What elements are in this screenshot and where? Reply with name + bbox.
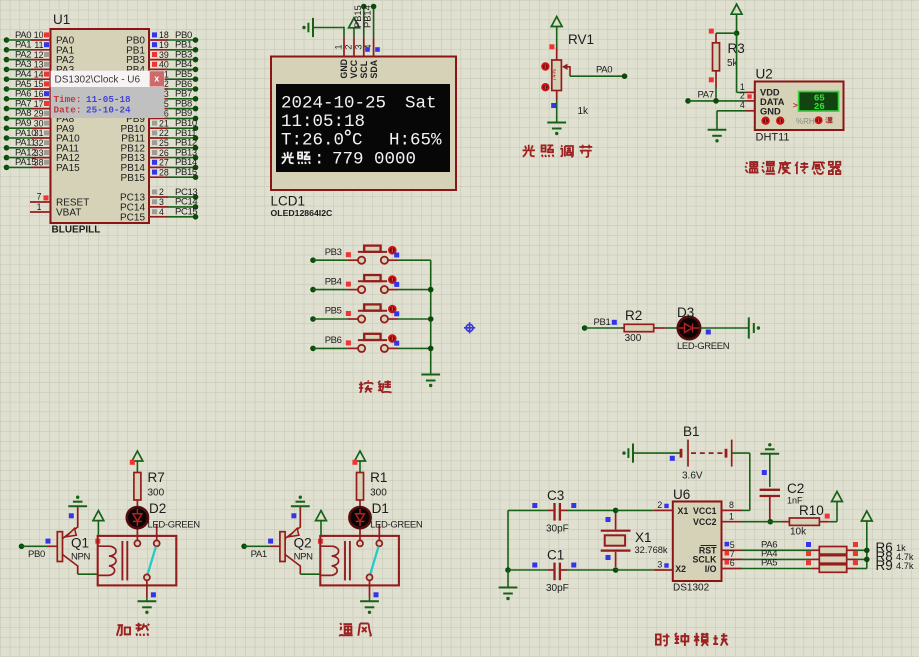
U1 pin 21 PB10 wire: [149, 127, 169, 129]
IC U6 DS1302 body: [673, 502, 722, 582]
wire gnd to pin1: [313, 27, 344, 29]
svg-text:GND: GND: [760, 106, 781, 116]
U1 pin 11 PA1 wire: [4, 47, 10, 53]
LCD1 pin 3 SCL: [363, 38, 365, 57]
svg-text:PB6: PB6: [325, 335, 342, 346]
svg-text:1: 1: [729, 511, 734, 521]
LCD1 pin 2 VCC: [353, 38, 355, 57]
wire PA1 to Q2 base: [244, 545, 270, 547]
LCD1 pin 4 SDA: [373, 38, 375, 57]
U1 pin 45 PB8 wire: [149, 108, 169, 110]
node VCC2/R10: [768, 519, 774, 525]
relay bottom pin to ground: [369, 580, 371, 597]
U2 pin stubs: [746, 91, 755, 93]
U1 pin 42 PB6 wire: [149, 88, 169, 90]
button PB3 actuator: [388, 246, 397, 255]
ground above C2: [768, 443, 771, 446]
popup close button: [150, 71, 164, 86]
wire common button net: [430, 260, 432, 374]
button PB5 actuator: [388, 305, 397, 314]
svg-text:PA7: PA7: [698, 89, 714, 100]
U6 pin 8: [722, 509, 743, 511]
LCD1 text line4 guang zhao: [282, 152, 294, 164]
svg-text:11:05:18: 11:05:18: [281, 112, 365, 132]
svg-text:D3: D3: [677, 305, 694, 320]
svg-text:39: 39: [159, 50, 169, 60]
terminal PB1: [582, 325, 588, 331]
svg-text:R10: R10: [799, 503, 824, 518]
annotation an jian: [359, 380, 373, 392]
power arrow above RV1: [551, 17, 562, 27]
svg-text:Q2: Q2: [294, 536, 312, 551]
relay core bars: [344, 541, 346, 580]
U6 pin 3: [654, 569, 673, 571]
svg-text:PB15: PB15: [175, 167, 197, 178]
svg-text:14: 14: [34, 69, 44, 79]
svg-text:8: 8: [729, 500, 734, 510]
terminal PB4: [310, 287, 316, 293]
node X1 bottom: [613, 567, 619, 573]
svg-text:C3: C3: [547, 488, 564, 503]
svg-text:PA1: PA1: [251, 549, 267, 560]
U1 pin 46 PB9 wire: [149, 117, 169, 119]
svg-text:LED-GREEN: LED-GREEN: [148, 520, 201, 531]
annotation guang zhao tiao jie: [523, 145, 535, 157]
svg-text:30pF: 30pF: [546, 524, 569, 535]
U1 pin 40 PB4 wire: [149, 68, 169, 70]
svg-text:R9: R9: [876, 558, 893, 573]
svg-text:PB1: PB1: [594, 317, 611, 328]
RV1 adjust buttons: [541, 62, 549, 70]
resistor R6: [812, 549, 819, 551]
terminal PB0: [19, 544, 25, 550]
wire PB5 to button: [313, 318, 348, 320]
svg-text:SDA: SDA: [369, 59, 379, 78]
wire ground to B1: [633, 452, 681, 454]
svg-text:U2: U2: [756, 67, 773, 82]
U1 pin 39 PB3 wire: [149, 59, 169, 61]
U1 pin 18 PB0 wire: [149, 39, 169, 41]
U1 pin 22 PB11 wire: [149, 137, 169, 139]
OLED display LCD1 body: [271, 57, 456, 191]
push button PB3: [348, 259, 358, 261]
terminal PB5: [310, 316, 316, 322]
svg-text:R2: R2: [625, 308, 642, 323]
svg-text:VBAT: VBAT: [56, 208, 81, 219]
button PB6 actuator: [388, 334, 397, 343]
wire PB0 to Q1 base: [22, 545, 48, 547]
terminal PA7: [685, 98, 691, 104]
svg-text:2: 2: [740, 90, 745, 100]
LED D2: [127, 507, 148, 528]
svg-text:19: 19: [159, 40, 169, 50]
relay body: [320, 536, 399, 586]
transistor Q1 NPN: [57, 532, 62, 562]
svg-text:NPN: NPN: [294, 552, 313, 563]
power arrow at R10: [832, 492, 843, 502]
ground above Q1: [76, 496, 79, 499]
svg-text:DS1302\Clock - U6: DS1302\Clock - U6: [55, 75, 141, 86]
relay switch arm: [148, 547, 156, 575]
U1 pin 38 PA15 wire: [4, 165, 10, 171]
annotation: [339, 623, 353, 636]
svg-text:3: 3: [657, 560, 662, 570]
svg-text:DS1302: DS1302: [673, 583, 710, 594]
svg-text:2: 2: [657, 500, 662, 510]
svg-text::: :: [314, 150, 325, 170]
capacitor C3: [508, 509, 548, 511]
relay bottom pin to ground: [146, 580, 148, 597]
wire PB1 to R2: [585, 327, 621, 329]
svg-text:PA15: PA15: [56, 163, 80, 174]
LED D3: [678, 317, 700, 339]
wire VCC2 to R10: [742, 521, 782, 523]
svg-text:PB4: PB4: [325, 276, 342, 287]
relay core bars: [121, 541, 123, 580]
svg-text:R1: R1: [370, 470, 387, 485]
wire PB6 to button: [313, 347, 348, 349]
resistor R1: [357, 473, 364, 501]
svg-text:25: 25: [159, 138, 169, 148]
wire RV1 wiper to PA0: [570, 75, 622, 77]
ground at LCD1 pin1: [312, 18, 314, 37]
U1 pin 25 PB12 wire: [149, 147, 169, 149]
resistor R8: [812, 558, 819, 560]
wire VCC down to U2 VDD: [736, 33, 738, 92]
transistor Q2 NPN: [280, 532, 285, 562]
svg-text:VCC2: VCC2: [693, 517, 717, 527]
U6 pin 1: [722, 521, 743, 523]
svg-text:C: C: [352, 130, 363, 150]
node X1 top: [613, 508, 619, 514]
power arrow above R7: [132, 451, 143, 461]
svg-text:X1: X1: [678, 506, 689, 516]
svg-text:18: 18: [159, 30, 169, 40]
ground above Q2: [299, 496, 302, 499]
svg-text:DHT11: DHT11: [756, 132, 790, 144]
svg-text:PB5: PB5: [325, 306, 342, 317]
node R3 top: [734, 30, 740, 36]
svg-text:17: 17: [34, 99, 44, 109]
svg-text:PC15: PC15: [120, 212, 145, 223]
svg-text:H:65%: H:65%: [389, 130, 442, 150]
ground below RV1: [547, 122, 566, 124]
svg-text:SCL: SCL: [359, 60, 369, 78]
relay contact common: [136, 528, 138, 541]
wire to U6 X1 pin: [616, 509, 654, 511]
ground below buttons: [421, 374, 440, 376]
svg-text:2: 2: [344, 44, 354, 49]
U1 pin 16 PA6 wire: [4, 96, 10, 102]
relay contact common: [359, 528, 361, 541]
U6 pin 7 wire PA4: [722, 558, 743, 560]
wire Q1 collector to relay coil: [78, 573, 98, 575]
U2 LCD readout: [799, 92, 839, 112]
U1 pin 17 PA7 wire: [4, 106, 10, 112]
U1 pin 4 PC15 wire: [149, 216, 169, 218]
svg-text:3.6V: 3.6V: [682, 471, 703, 482]
svg-text:4.7k: 4.7k: [896, 561, 914, 571]
U1 pin 28 PB15 wire: [149, 176, 169, 178]
annotation wen shi du chuan gan qi: [745, 162, 758, 173]
svg-text:2: 2: [159, 187, 164, 197]
svg-text:16: 16: [34, 89, 44, 99]
origin marker: [464, 322, 475, 333]
svg-text:PB3: PB3: [325, 247, 342, 258]
svg-text:1: 1: [334, 44, 344, 49]
svg-text:X1: X1: [635, 530, 652, 545]
wire node PB14 to pin4: [373, 7, 375, 39]
U1 pin 30 PA9 wire: [4, 125, 10, 131]
svg-text:26: 26: [814, 101, 825, 112]
svg-text:25-10-24: 25-10-24: [86, 105, 131, 116]
ground below relay: [360, 600, 379, 602]
wire R10 to power: [829, 521, 837, 523]
wire PA7 to U2 DATA: [688, 100, 746, 102]
svg-text:X2: X2: [675, 564, 686, 574]
svg-text:1: 1: [37, 202, 42, 212]
power arrow at relay coil: [93, 511, 104, 521]
svg-text:x: x: [154, 74, 159, 84]
U1 pin 3 PC14 wire: [149, 206, 169, 208]
DHT11 sensor U2 body: [755, 82, 844, 131]
U1 pin 13 PA3 wire: [4, 67, 10, 73]
potentiometer RV1 body: [556, 47, 558, 60]
U1 pin 43 PB7 wire: [149, 98, 169, 100]
U1 pin 2 PC13 wire: [149, 196, 169, 198]
power arrow at relay coil: [316, 511, 327, 521]
svg-text:GND: GND: [339, 59, 349, 79]
U1 pin 1 VBAT: [30, 211, 51, 213]
RV1 bottom pin: [556, 91, 558, 101]
wire button PB6 to common: [398, 347, 431, 349]
svg-text:D2: D2: [149, 501, 166, 516]
resistor R9: [812, 568, 819, 570]
svg-text:26: 26: [159, 148, 169, 158]
U1 pin 7 RESET: [30, 201, 51, 203]
svg-text:LCD1: LCD1: [271, 194, 306, 209]
LCD1 screen: [276, 84, 450, 172]
power arrow above R3/U2: [731, 4, 742, 14]
U1 pin 26 PB13 wire: [149, 157, 169, 159]
svg-text:779 0000: 779 0000: [332, 150, 416, 170]
svg-text:4: 4: [740, 100, 745, 110]
svg-text:I/O: I/O: [705, 564, 717, 574]
terminal PB6: [310, 346, 316, 352]
svg-text:13: 13: [34, 60, 44, 70]
svg-text:>: >: [793, 100, 798, 110]
resistor R7: [134, 473, 141, 501]
ground left of B1: [632, 444, 634, 463]
svg-text:RV1: RV1: [568, 32, 594, 47]
capacitor C2: [760, 489, 780, 491]
LCD1 pin 1 GND: [343, 38, 345, 57]
crystal X1: [615, 513, 617, 530]
svg-text:T:26.0: T:26.0: [281, 130, 344, 150]
svg-text:LED-GREEN: LED-GREEN: [677, 341, 730, 352]
svg-text:12: 12: [34, 50, 44, 60]
svg-text:NPN: NPN: [71, 552, 90, 563]
U1 pin 19 PB1 wire: [149, 49, 169, 51]
svg-text:PA5: PA5: [761, 558, 777, 569]
svg-text:%RH: %RH: [796, 117, 815, 126]
wire U2 GND to ground: [717, 110, 746, 112]
relay contact NO: [378, 525, 380, 541]
svg-text:10k: 10k: [790, 527, 807, 538]
wire R2 to D3: [665, 327, 678, 329]
terminal PB3: [310, 257, 316, 263]
wire PB3 to button: [313, 259, 348, 261]
power arrow at LCD1 pin2: [349, 18, 360, 28]
push button PB5: [348, 318, 358, 320]
capacitor C1: [505, 567, 511, 573]
svg-text:PB14: PB14: [363, 5, 373, 28]
terminal PA1: [241, 544, 247, 550]
svg-text:BLUEPILL: BLUEPILL: [52, 225, 101, 236]
svg-text:40: 40: [159, 60, 169, 70]
U2 buttons: [761, 117, 769, 125]
svg-text:Date:: Date:: [54, 105, 82, 116]
ground right of D3: [748, 317, 750, 338]
U6 pin 2: [654, 509, 673, 511]
U1 pin 29 PA8 wire: [4, 116, 10, 122]
U1 pin 32 PA11 wire: [4, 145, 10, 151]
svg-text:15: 15: [34, 79, 44, 89]
RV1 wiper: [564, 67, 571, 76]
button PB4 actuator: [388, 275, 397, 284]
svg-text:PA0: PA0: [596, 65, 612, 76]
svg-text:300: 300: [625, 333, 642, 344]
wire button PB3 to common: [398, 259, 431, 261]
annotation shi zhong mo kuai: [656, 634, 670, 646]
power arrow above R1: [355, 451, 366, 461]
wire B1 to U6 VCC1: [732, 452, 750, 454]
svg-text:LED-GREEN: LED-GREEN: [370, 520, 423, 531]
svg-text:C1: C1: [547, 548, 564, 563]
svg-text:VCC: VCC: [349, 59, 359, 78]
svg-text:Sat: Sat: [405, 93, 437, 113]
svg-text:PB15: PB15: [353, 5, 363, 28]
svg-text:U6: U6: [673, 487, 690, 502]
svg-text:300: 300: [148, 488, 165, 499]
wire pullup rail: [866, 521, 868, 569]
svg-text:6: 6: [730, 558, 735, 568]
svg-text:PB0: PB0: [28, 549, 45, 560]
svg-text:11-05-18: 11-05-18: [86, 94, 131, 105]
U6 pin 5 wire PA6: [722, 549, 743, 551]
wire button PB4 to common: [398, 289, 431, 291]
MCU U1 BLUEPILL chip body: [51, 29, 150, 223]
svg-text:OLED12864I2C: OLED12864I2C: [271, 208, 334, 218]
svg-text:22: 22: [159, 128, 169, 138]
ground below left rail: [499, 587, 518, 589]
svg-text:27: 27: [159, 158, 169, 168]
svg-text:28: 28: [159, 167, 169, 177]
svg-text:32.768k: 32.768k: [635, 545, 668, 555]
svg-text:38: 38: [34, 158, 44, 168]
svg-text:PC15: PC15: [175, 207, 197, 218]
wire PB4 to button: [313, 289, 348, 291]
svg-text:30pF: 30pF: [546, 583, 569, 594]
svg-text:Time:: Time:: [54, 94, 82, 105]
svg-text:D1: D1: [372, 501, 389, 516]
U6 pin 6 wire PA5: [722, 568, 743, 570]
wire Q2 collector to relay coil: [300, 573, 320, 575]
push button PB4: [348, 289, 358, 291]
wire to U6 X2 pin: [616, 569, 654, 571]
svg-text:29: 29: [34, 109, 44, 119]
wire left rail C3/C1: [507, 510, 509, 570]
svg-text:3: 3: [159, 197, 164, 207]
U1 pin 14 PA4 wire: [4, 76, 10, 82]
wire node PB15 to pin3: [363, 7, 365, 39]
push button PB6: [348, 347, 358, 349]
svg-text:Q1: Q1: [71, 536, 89, 551]
svg-text:10: 10: [34, 30, 44, 40]
resistor R3: [715, 33, 717, 43]
svg-text:PB15: PB15: [121, 173, 146, 184]
relay contact NO: [156, 525, 158, 541]
wire D3 to ground: [700, 327, 749, 329]
svg-text:U1: U1: [53, 12, 70, 27]
popup DS1302 Clock - U6: [51, 71, 165, 118]
U1 pin 10 PA0 wire: [4, 37, 10, 43]
resistor R2: [621, 327, 624, 329]
power arrow pullups: [861, 511, 872, 521]
svg-text:21: 21: [159, 118, 169, 128]
svg-text:300: 300: [370, 488, 387, 499]
U1 pin 41 PB5 wire: [149, 78, 169, 80]
wire button PB5 to common: [398, 318, 431, 320]
relay body: [98, 536, 177, 586]
svg-text:VCC1: VCC1: [693, 506, 717, 516]
U1 pin 12 PA2 wire: [4, 57, 10, 63]
relay coil: [99, 546, 110, 575]
wire to R3: [716, 32, 737, 34]
ground below relay: [138, 600, 157, 602]
svg-text:2024-10-25: 2024-10-25: [281, 93, 386, 113]
ground below U2: [708, 129, 727, 131]
svg-text:4: 4: [159, 207, 164, 217]
svg-text:R7: R7: [148, 470, 165, 485]
svg-text:DATA: DATA: [760, 97, 785, 107]
svg-text:74%: 74%: [552, 68, 558, 81]
relay switch arm: [370, 547, 378, 575]
U1 pin 27 PB14 wire: [149, 166, 169, 168]
U1 pin 31 PA10 wire: [4, 135, 10, 141]
svg-text:C2: C2: [787, 481, 804, 496]
U1 pin 15 PA5 wire: [4, 86, 10, 92]
resistor R10: [782, 521, 789, 523]
relay coil: [321, 546, 332, 575]
battery B1: [680, 449, 683, 458]
svg-text:7: 7: [37, 192, 42, 202]
annotation: [117, 625, 130, 636]
svg-text:1k: 1k: [578, 106, 590, 117]
svg-text:SCLK: SCLK: [693, 555, 718, 565]
svg-text:3: 3: [353, 44, 363, 49]
U1 pin 33 PA12 wire: [4, 155, 10, 161]
svg-text:B1: B1: [683, 424, 700, 439]
svg-text:11: 11: [34, 40, 43, 50]
LED D1: [349, 507, 370, 528]
